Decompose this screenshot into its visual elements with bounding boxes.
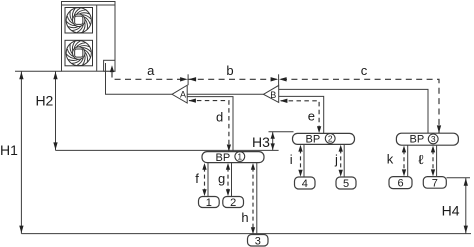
svg-text:2: 2 (230, 197, 236, 209)
svg-text:2: 2 (328, 133, 333, 143)
svg-text:BP: BP (410, 134, 425, 146)
svg-text:a: a (147, 63, 155, 78)
svg-text:c: c (361, 63, 368, 78)
svg-text:e: e (308, 109, 315, 124)
svg-text:h: h (241, 210, 248, 225)
svg-text:g: g (218, 171, 225, 186)
svg-text:H4: H4 (442, 203, 460, 219)
svg-text:BP: BP (216, 152, 231, 164)
svg-text:1: 1 (237, 152, 242, 162)
svg-text:H3: H3 (252, 134, 270, 150)
svg-text:b: b (226, 63, 233, 78)
svg-text:3: 3 (255, 235, 261, 247)
svg-text:j: j (334, 152, 338, 167)
svg-text:k: k (387, 151, 394, 166)
svg-text:3: 3 (431, 134, 436, 144)
svg-text:A: A (180, 90, 186, 100)
svg-text:i: i (290, 152, 293, 167)
svg-text:BP: BP (306, 134, 321, 146)
svg-text:1: 1 (206, 197, 212, 209)
svg-text:5: 5 (343, 178, 349, 190)
svg-text:B: B (270, 90, 276, 100)
svg-text:4: 4 (302, 178, 308, 190)
svg-text:H1: H1 (0, 142, 18, 158)
svg-text:H2: H2 (35, 93, 53, 109)
svg-text:7: 7 (432, 177, 438, 189)
svg-text:f: f (195, 171, 199, 186)
svg-text:6: 6 (397, 178, 403, 190)
svg-text:ℓ: ℓ (418, 153, 424, 168)
svg-text:d: d (216, 109, 223, 124)
